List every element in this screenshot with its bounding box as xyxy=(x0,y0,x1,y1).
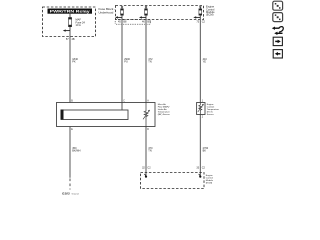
ECT sensor label xyxy=(207,104,220,116)
ECM pin labels 46 B9 xyxy=(142,21,151,24)
MAF sensor element inner box xyxy=(61,110,129,120)
svg-text:10 A: 10 A xyxy=(76,23,81,27)
wire label 1840 PK xyxy=(72,58,78,64)
svg-text:PWR/TRN Relay: PWR/TRN Relay xyxy=(50,10,90,14)
wire label 2760 BK xyxy=(203,147,209,153)
svg-text:YE: YE xyxy=(203,61,207,64)
MAF sensor label xyxy=(158,103,171,116)
ECM internal resistor pin 73 xyxy=(199,6,202,19)
ECM label xyxy=(206,5,215,17)
wire IAT signal xyxy=(145,20,147,103)
svg-text:BK: BK xyxy=(203,150,207,153)
svg-text:G103: G103 xyxy=(62,191,70,195)
ground reference G103 xyxy=(62,191,79,195)
wire label 450 BK/WH xyxy=(72,147,80,153)
fuse block name label xyxy=(99,7,116,14)
icon jump back curved arrows xyxy=(272,27,283,36)
MAF pin letters top xyxy=(71,100,149,103)
ECM pin terminal 32 xyxy=(144,174,147,178)
wire ECT low reference xyxy=(199,115,201,177)
svg-text:4B: 4B xyxy=(72,38,75,41)
ECM internal resistor pin 45 xyxy=(121,6,124,19)
MAF pin letters bottom xyxy=(71,129,149,131)
wire fuse to pin xyxy=(69,27,71,37)
pin 57 4B labels xyxy=(66,38,75,41)
MAF IAT sensor box xyxy=(57,103,156,127)
icon back arrow xyxy=(273,50,282,58)
wire MAF signal xyxy=(121,20,123,111)
svg-text:(ECM): (ECM) xyxy=(206,183,213,185)
svg-text:(IAT) Sensor: (IAT) Sensor xyxy=(158,113,170,116)
internal arrow pin 73 xyxy=(193,16,200,18)
connector C2 dotted box xyxy=(115,20,150,25)
ECM bottom pin labels 33 C2 xyxy=(196,166,205,169)
IAT thermistor xyxy=(143,103,150,127)
svg-text:Underhood: Underhood xyxy=(99,11,114,15)
fuse value label xyxy=(76,17,86,27)
ECM pin labels 45 B8 xyxy=(118,21,127,24)
svg-text:TN: TN xyxy=(148,150,152,153)
wire sensor ground xyxy=(69,127,71,178)
svg-text:PK: PK xyxy=(72,61,76,64)
ECM bottom dashed box xyxy=(141,173,205,189)
wire ECT signal xyxy=(199,20,201,103)
internal arrow pin 46 xyxy=(139,16,146,18)
svg-text:Ground: Ground xyxy=(72,192,80,195)
svg-text:BK/WH: BK/WH xyxy=(72,150,80,153)
relay bar PWR/TRN Relay xyxy=(48,9,93,14)
ECM pin terminal 33 xyxy=(199,174,202,178)
ECT thermistor xyxy=(198,103,204,115)
wire label 472 TN xyxy=(148,58,153,64)
wire IAT low reference xyxy=(145,127,147,177)
ECM bottom label xyxy=(206,175,214,185)
wire label 410 YE xyxy=(203,58,208,64)
icon forward arrow xyxy=(273,37,282,45)
ECT sensor box xyxy=(197,103,205,115)
ECM internal resistor pin 46 xyxy=(145,6,148,19)
ECM top dashed box xyxy=(116,6,204,20)
internal connection arrow xyxy=(63,29,70,31)
ECM pin labels 73 C2 xyxy=(196,21,205,24)
svg-text:(ECM): (ECM) xyxy=(206,13,214,17)
fuse block underhood dashed box xyxy=(43,7,96,37)
svg-text:Sensor: Sensor xyxy=(207,114,214,116)
svg-text:PU: PU xyxy=(124,61,128,64)
wire label 2760 TN xyxy=(148,147,153,153)
wire relay to fuse xyxy=(69,14,71,18)
wire label 2900 xyxy=(124,58,130,64)
ECM bottom pin labels 32 C2 xyxy=(142,166,151,169)
icon zoom in xyxy=(273,1,283,10)
internal arrow pin 45 xyxy=(115,16,122,18)
svg-text:TN: TN xyxy=(148,61,152,64)
ground continuation dashed xyxy=(69,179,71,190)
fuse MAF 10A xyxy=(69,18,72,27)
icon zoom out xyxy=(273,13,283,22)
wire ignition feed xyxy=(69,37,71,103)
